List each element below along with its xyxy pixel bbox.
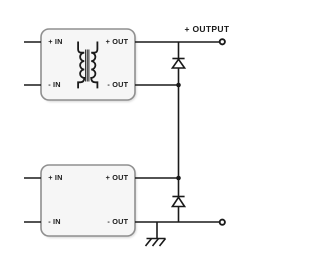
module U1: [41, 29, 135, 100]
svg-text:- IN: - IN: [48, 217, 61, 226]
svg-text:- OUT: - OUT: [107, 217, 128, 226]
node junction top: [176, 83, 181, 88]
wire rail bottom segment: [178, 207, 180, 223]
ground: [146, 239, 166, 247]
transformer T1: [78, 42, 97, 89]
diode D2: [172, 197, 184, 207]
wire U1 +OUT to terminal: [135, 41, 220, 43]
wire U2 -OUT to terminal: [135, 221, 220, 223]
wire rail middle segment: [178, 68, 180, 197]
wire U2 +OUT to rail: [135, 177, 179, 179]
module U1 shadow: [43, 31, 137, 102]
svg-text:+ OUT: + OUT: [106, 37, 129, 46]
svg-text:- OUT: - OUT: [107, 80, 128, 89]
wire U1 -OUT to rail: [135, 84, 179, 86]
node junction bottom: [176, 176, 181, 181]
wire ground stub: [156, 222, 158, 239]
wire U2 +IN stub: [24, 177, 41, 179]
svg-text:- IN: - IN: [48, 80, 61, 89]
module U2 shadow: [43, 167, 137, 238]
svg-text:+ IN: + IN: [48, 173, 62, 182]
terminal +OUTPUT: [220, 39, 225, 44]
svg-text:+ IN: + IN: [48, 37, 62, 46]
wire U1 -IN stub: [24, 84, 41, 86]
svg-text:+ OUTPUT: + OUTPUT: [185, 24, 230, 34]
wire rail top segment: [178, 42, 180, 59]
wire U2 -IN stub: [24, 221, 41, 223]
module U2: [41, 165, 135, 236]
wire U1 +IN stub: [24, 41, 41, 43]
svg-text:+ OUT: + OUT: [106, 173, 129, 182]
diode D1: [172, 59, 184, 69]
terminal bottom: [220, 220, 225, 225]
